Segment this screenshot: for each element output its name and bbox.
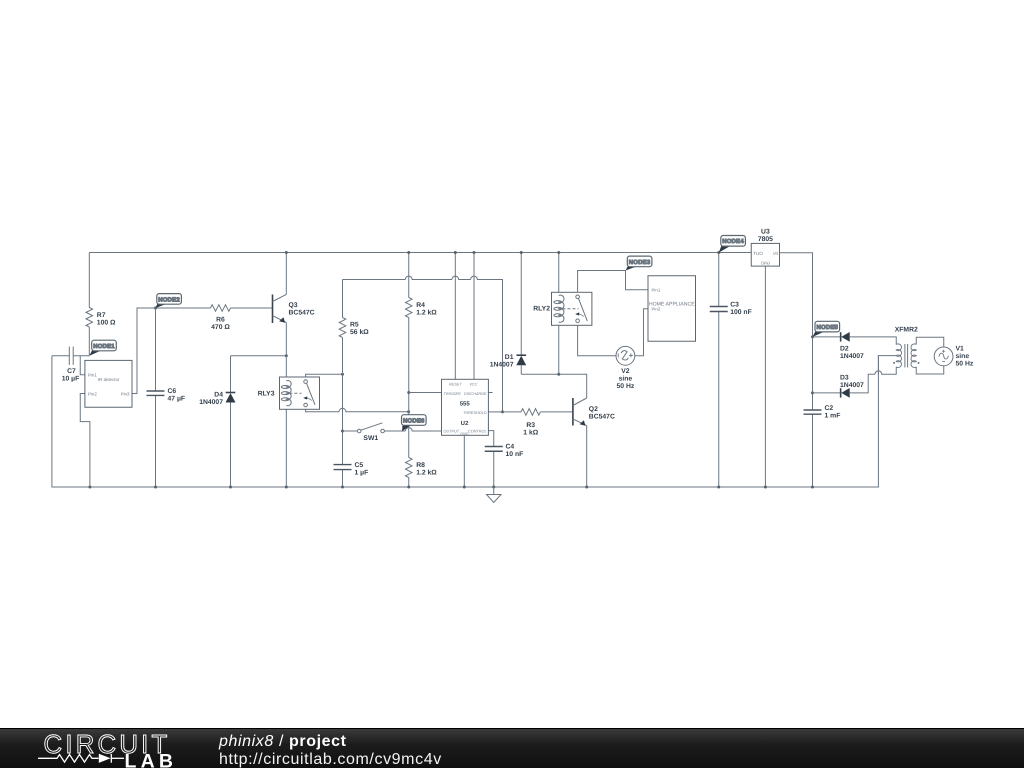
node NODE2 [156,294,182,308]
wire RLY3 top contact to R5 [306,374,343,380]
wire SW1 right to OUTPUT (with hop) [384,428,441,431]
source V2 [616,346,635,390]
svg-text:NODE2: NODE2 [158,296,180,303]
svg-text:NODE1: NODE1 [93,343,115,350]
node NODE4 [719,236,746,253]
svg-text:RLY2: RLY2 [533,306,550,313]
svg-text:1 kΩ: 1 kΩ [523,429,538,436]
diode D3 [840,375,864,398]
svg-text:56 kΩ: 56 kΩ [350,329,369,336]
capacitor C6 [147,388,186,403]
svg-text:TRIGGER: TRIGGER [444,392,462,396]
wire RESET from top rail [454,253,456,380]
svg-text:Pin1: Pin1 [88,373,97,378]
svg-text:Pin3: Pin3 [121,391,130,396]
svg-text:IN: IN [773,251,778,256]
svg-text:1 mF: 1 mF [825,413,841,420]
ground [487,487,502,503]
svg-text:R7: R7 [97,312,106,319]
capacitor C2 [804,405,841,420]
svg-text:XFMR2: XFMR2 [895,326,918,333]
wire U3 GND to ground rail [764,266,766,487]
svg-text:R4: R4 [416,302,425,309]
svg-text:sine: sine [956,353,970,360]
IC U3 7805 regulator [751,228,779,266]
resistor R3 [521,409,540,437]
wire Q3 emitter to RLY3 coil [285,323,287,488]
svg-text:R6: R6 [216,316,225,323]
wire Pin1 stub [80,356,85,375]
wire R5 branch (second rail left) [342,280,344,488]
svg-text:C4: C4 [506,444,515,451]
svg-text:DISCHARGE: DISCHARGE [464,392,487,396]
svg-text:C5: C5 [355,462,364,469]
svg-text:10 µF: 10 µF [62,376,80,383]
resistor R8 [405,458,437,478]
svg-text:VCC: VCC [469,383,477,387]
svg-text:BC547C: BC547C [289,309,315,316]
svg-text:THRESHOLD: THRESHOLD [463,411,487,415]
capacitor C3 [710,301,752,316]
svg-text:1.2 kΩ: 1.2 kΩ [416,310,437,317]
transistor Q3 [273,294,315,323]
IC HOME APPLIANCE [648,276,696,342]
wire transformer center tap to ground rail [878,356,896,375]
wire D3 left [813,392,841,394]
footer title project name [219,734,347,750]
svg-text:100 nF: 100 nF [730,309,752,316]
wire SW1 left [343,430,358,432]
svg-text:555: 555 [460,400,471,407]
wire D4 to Q3 emitter junction [231,356,287,487]
wire R6 to Q3 base [231,307,273,309]
switch SW1 [357,423,384,442]
wire C3 branch [718,253,720,488]
wire TRIGGER [409,392,442,394]
wire D3 to transformer bottom (with hop) [850,367,897,393]
resistor R7 [86,308,116,328]
svg-text:sine: sine [619,376,633,383]
svg-text:D3: D3 [840,375,849,382]
svg-text:RESET: RESET [449,383,462,387]
svg-text:Pin1: Pin1 [652,288,661,293]
relay RLY2 [533,292,592,325]
wire C7 left [52,355,60,357]
wire D2 to transformer top [850,337,897,345]
svg-text:1N4007: 1N4007 [199,399,223,406]
CircuitLab logo [0,729,360,769]
capacitor C7 [60,347,81,383]
svg-text:470 Ω: 470 Ω [211,324,230,331]
IC U2 555 timer [442,379,489,436]
wire U3 IN to NODE5 vertical [780,253,813,337]
svg-text:100 Ω: 100 Ω [97,320,116,327]
wire R4 branch from top rail [408,253,410,488]
relay RLY3 [258,377,320,409]
svg-text:1.2 kΩ: 1.2 kΩ [416,470,437,477]
resistor R6 [211,305,231,331]
source V1 [934,345,974,367]
svg-text:Q3: Q3 [289,302,298,309]
resistor R5 [339,318,369,338]
svg-text:U3: U3 [761,228,770,235]
svg-text:10 nF: 10 nF [506,451,524,458]
svg-text:NODE3: NODE3 [629,259,651,266]
wire D1 to Q2 collector [521,374,586,398]
svg-text:50 Hz: 50 Hz [617,383,635,390]
svg-text:R5: R5 [350,322,359,329]
wire RLY3 bottom contact to NODE6 vertical (with hop) [306,407,409,412]
wire V2 to Pin2 [635,309,648,356]
svg-text:D1: D1 [505,354,514,361]
svg-text:CONTROL: CONTROL [468,429,487,433]
transistor Q2 [573,398,615,426]
transformer XFMR2 [893,326,920,367]
node NODE3 [626,256,652,270]
wire RLY2 top contact to NODE3 and Pin1 [578,271,648,296]
wire RLY2 bottom contact to V2 [578,323,616,356]
wire D1 branch from top rail [520,253,522,375]
svg-text:V2: V2 [621,368,630,375]
svg-text:C3: C3 [730,301,739,308]
svg-text:GND: GND [460,432,468,436]
wire transformer secondary to V1 [916,337,944,347]
capacitor C5 [334,462,369,477]
wire Pin2 to ground rail [80,394,90,488]
capacitor C4 [485,444,524,459]
svg-text:IR detector: IR detector [98,377,120,382]
svg-text:1N4007: 1N4007 [490,361,514,368]
diode D4 [199,391,235,406]
wire DISCHARGE stub [488,392,492,394]
svg-text:Pin2: Pin2 [88,391,97,396]
diode D2 [840,332,864,360]
svg-text:47 µF: 47 µF [168,396,186,403]
wire VCC from top rail [473,253,475,380]
svg-text:GND: GND [761,261,770,266]
wire NODE5 to D3 and C2 [812,337,814,487]
IC IR detector [85,360,132,407]
svg-text:SW1: SW1 [363,435,378,442]
wire second rail to THRESHOLD (with hops) [343,276,503,412]
wire V1 bottom loop [916,366,944,374]
resistor R4 [405,298,437,318]
wire bottom ground rail [52,356,879,487]
svg-text:7805: 7805 [758,236,773,243]
wire CONTROL to C4 and ground [488,431,493,487]
node NODE6 [402,415,427,432]
svg-text:D2: D2 [840,346,849,353]
svg-text:1N4007: 1N4007 [840,382,864,389]
svg-text:1N4007: 1N4007 [840,353,864,360]
wire Q2 emitter to ground rail [586,426,588,487]
wire Q3 collector to top rail [285,253,287,295]
wire C6 branch [155,308,157,487]
svg-text:C7: C7 [67,368,76,375]
svg-text:LAB: LAB [125,750,178,769]
svg-text:Pin2: Pin2 [652,307,661,312]
svg-text:1 µF: 1 µF [355,469,369,476]
svg-text:NODE6: NODE6 [403,417,425,424]
svg-text:50 Hz: 50 Hz [956,360,974,367]
svg-text:R3: R3 [526,422,535,429]
svg-text:NODE5: NODE5 [817,324,839,331]
svg-text:D4: D4 [214,391,223,398]
svg-text:BC547C: BC547C [589,413,615,420]
svg-text:NODE4: NODE4 [722,238,744,245]
wire Pin3 to NODE2 [132,308,211,394]
node NODE1 [89,340,116,356]
wire NODE5 to D2 [813,336,841,338]
wire top supply rail [89,253,751,356]
wire 555 GND to ground rail [463,435,465,487]
svg-text:C6: C6 [168,388,177,395]
svg-text:Q2: Q2 [589,406,598,413]
diode D1 [490,354,527,369]
svg-text:RLY3: RLY3 [258,391,275,398]
wire RLY2 coil from top rail [558,253,560,375]
node NODE5 [813,321,840,337]
svg-text:OUTPUT: OUTPUT [444,429,460,433]
svg-text:R8: R8 [416,462,425,469]
svg-text:V1: V1 [956,345,965,352]
wire THRESHOLD stub [488,411,502,413]
svg-text:C2: C2 [825,405,834,412]
wire R3 to Q2 base [503,411,573,413]
footer url [219,752,442,768]
svg-text:OUT: OUT [753,251,763,256]
svg-text:U2: U2 [461,420,470,427]
wire C7 to NODE1 [82,355,90,357]
